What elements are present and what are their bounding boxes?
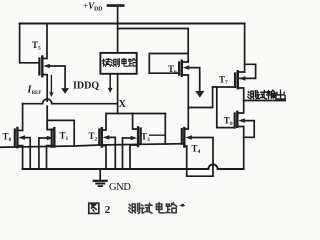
transistor T8	[217, 101, 254, 170]
transistor T1	[39, 120, 54, 169]
svg-text:T7: T7	[219, 75, 228, 87]
label 测试输出 (test output)	[248, 90, 285, 99]
svg-text:IREF: IREF	[27, 85, 42, 96]
caption stray ink dot	[180, 204, 185, 207]
svg-text:T6: T6	[168, 64, 177, 76]
label 被测电路 (circuit under test)	[102, 58, 136, 66]
svg-text:T5: T5	[32, 40, 41, 52]
wire GND rail (hops over T4 source tie)	[23, 164, 244, 169]
wire rail branch to T6 drain	[118, 28, 189, 30]
transistor T5	[20, 24, 69, 130]
wire T2/T3 drain header	[106, 113, 165, 115]
transistor T0	[15, 128, 30, 169]
wire gate stub	[150, 134, 166, 136]
wire VDD drop to rail and CUT box	[117, 7, 119, 53]
caption 图 2 测试电路	[89, 203, 177, 214]
wire X header to gate rail	[164, 114, 166, 145]
svg-text:X: X	[119, 99, 127, 110]
svg-text:T8: T8	[224, 115, 233, 127]
wire T1 diode loop	[47, 120, 74, 146]
current arrow IDDQ	[108, 75, 113, 93]
svg-text:T3: T3	[141, 132, 150, 144]
transistor T7	[235, 24, 256, 101]
svg-text:T1: T1	[60, 130, 69, 142]
wire T4 drain header	[188, 87, 212, 108]
svg-text:GND: GND	[109, 182, 131, 193]
circuit-under-test box 被测电路	[100, 53, 136, 74]
ground symbol	[94, 169, 107, 186]
wire VDD top rail	[20, 23, 245, 25]
svg-text:T0: T0	[3, 132, 12, 144]
label +VDD	[83, 1, 102, 12]
wire common gate rail	[0, 144, 184, 148]
wire test output	[244, 100, 286, 102]
transistor T3	[123, 114, 141, 170]
wire T7/T8 gate tie	[213, 87, 236, 128]
wire T0 drain riser	[22, 104, 24, 131]
svg-text:2: 2	[105, 204, 111, 216]
svg-text:+VDD: +VDD	[83, 1, 102, 12]
svg-text:T2: T2	[89, 131, 98, 143]
svg-text:IDDQ: IDDQ	[73, 80, 99, 91]
transistor T6	[149, 29, 204, 108]
svg-text:T4: T4	[192, 143, 201, 155]
transistor T2	[99, 114, 115, 170]
transistor T4	[182, 108, 213, 177]
power symbol +VDD bar	[108, 4, 123, 7]
wire CUT box to node X and T2/T3 header	[117, 74, 119, 114]
node X wire (hops over IREF line)	[23, 99, 118, 104]
current arrow IREF	[49, 76, 53, 98]
